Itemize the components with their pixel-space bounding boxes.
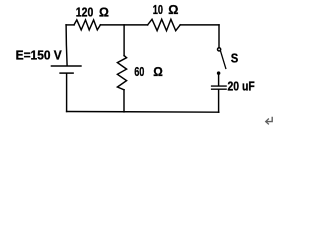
- svg-text:10: 10: [153, 2, 163, 17]
- svg-text:Ω: Ω: [153, 64, 163, 79]
- wire bottom segment: [67, 111, 219, 114]
- wire left lower (battery to bottom): [66, 74, 68, 112]
- switch S lower contact dot: [217, 71, 221, 75]
- svg-text:E=150 V: E=150 V: [16, 47, 62, 62]
- resistor R2 10 ohm: [148, 19, 181, 30]
- svg-text:60: 60: [134, 64, 144, 79]
- capacitor C1 top plate: [212, 85, 227, 87]
- wire top-left segment: [66, 24, 74, 26]
- wire right upper (to switch): [218, 25, 220, 48]
- svg-text:20 uF: 20 uF: [228, 79, 255, 94]
- switch S blade: [221, 51, 226, 68]
- battery E long plate: [51, 65, 81, 67]
- wire capacitor to bottom: [218, 90, 220, 112]
- switch S open contact circle: [218, 48, 221, 51]
- capacitor C1 bottom plate: [212, 88, 227, 90]
- battery E short plate: [60, 72, 73, 74]
- wire left side (corner to battery): [66, 25, 67, 66]
- wire top-right segment: [180, 24, 219, 26]
- paragraph return mark (gray): [266, 117, 273, 125]
- svg-text:Ω: Ω: [99, 5, 109, 20]
- wire middle branch upper: [123, 25, 125, 56]
- resistor R1 120 ohm: [74, 20, 100, 30]
- svg-text:Ω: Ω: [168, 2, 178, 17]
- svg-text:S: S: [231, 51, 239, 66]
- svg-text:120: 120: [76, 5, 94, 20]
- wire top-middle segment: [100, 24, 147, 26]
- resistor R3 60 ohm: [117, 56, 126, 90]
- wire switch to capacitor: [218, 75, 220, 86]
- wire middle branch lower: [123, 90, 125, 112]
